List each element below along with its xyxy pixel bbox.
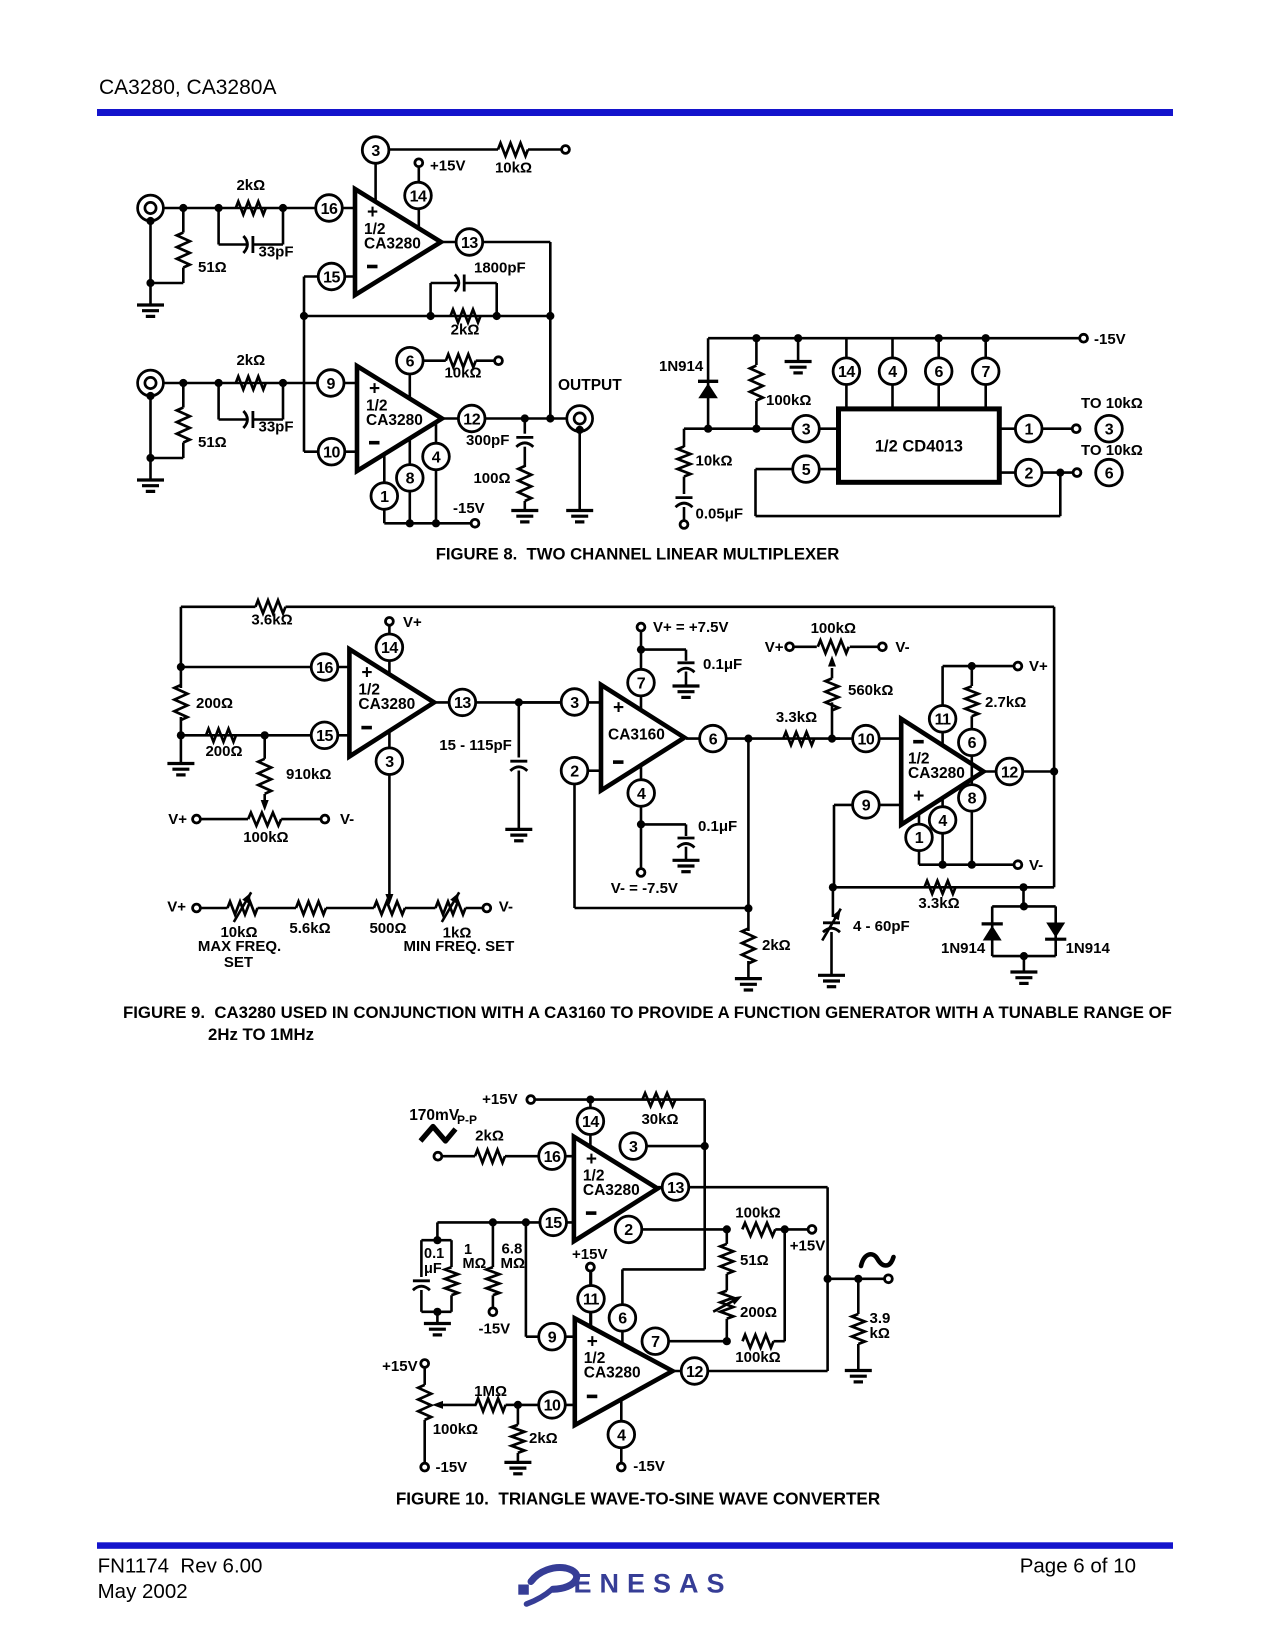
- V+ 7.5 terminal: [637, 619, 729, 710]
- caption figure 10: [396, 1490, 880, 1509]
- svg-text:100kΩ: 100kΩ: [811, 620, 856, 637]
- svg-text:V+: V+: [167, 899, 186, 916]
- svg-text:100Ω: 100Ω: [473, 470, 510, 487]
- svg-text:33pF: 33pF: [259, 419, 294, 436]
- svg-text:+: +: [367, 202, 378, 223]
- resistor R9 100k: [750, 338, 812, 429]
- header title text: [99, 76, 276, 99]
- diode D3 1N914: [1045, 923, 1110, 958]
- svg-text:0.05μF: 0.05μF: [696, 506, 744, 523]
- input jack J2: [138, 370, 164, 400]
- svg-text:4 - 60pF: 4 - 60pF: [853, 918, 910, 935]
- pin 10 of U6: [853, 725, 880, 752]
- input jack J1: [138, 195, 164, 225]
- node dot A2: [215, 204, 223, 212]
- triangle wave symbol: [421, 1127, 456, 1142]
- capacitor C3 33pF: [219, 383, 294, 436]
- output node fig10: [824, 1275, 893, 1283]
- pin 3 wire of CD4013: [684, 425, 839, 433]
- wire to pin 16 fig9: [177, 663, 350, 671]
- svg-text:1N914: 1N914: [941, 940, 986, 957]
- pin 2 of CA3160 wire: [575, 771, 750, 908]
- resistor R12 200ohm: [174, 667, 233, 739]
- pot R29 100k fig10: [382, 1358, 478, 1476]
- svg-text:SET: SET: [224, 954, 253, 971]
- resistor R32 51ohm: [720, 1225, 768, 1290]
- ground G10: [735, 979, 762, 990]
- node dot after 13: [515, 698, 523, 706]
- svg-text:kΩ: kΩ: [870, 1325, 890, 1342]
- wire inverting bus down: [304, 316, 357, 452]
- label TO 10k lower: [1081, 442, 1143, 459]
- svg-text:200Ω: 200Ω: [196, 695, 233, 712]
- svg-text:4: 4: [637, 786, 646, 803]
- resistor R14 910k: [258, 735, 331, 811]
- svg-text:33pF: 33pF: [259, 244, 294, 261]
- svg-text:200Ω: 200Ω: [205, 743, 242, 760]
- capacitor C7 0.1uF top: [641, 650, 742, 686]
- pin 10 of U8: [539, 1392, 566, 1419]
- pin 3 of CA3160: [561, 689, 588, 716]
- pin 7 of U8: [642, 1328, 669, 1355]
- op-amp U6 1/2 CA3280 fig9: [901, 719, 983, 825]
- pin 15 wire fig10: [433, 1218, 574, 1244]
- svg-text:0.1μF: 0.1μF: [703, 656, 742, 673]
- svg-text:FIGURE 9. CA3280 USED IN CONJ: FIGURE 9. CA3280 USED IN CONJUNCTION WIT…: [123, 1003, 1172, 1022]
- svg-text:4: 4: [938, 813, 947, 830]
- svg-text:V-: V-: [499, 899, 513, 916]
- footer date: [98, 1580, 188, 1603]
- resistor R25 3.3k feedback: [918, 881, 959, 912]
- node dot B2: [215, 379, 223, 387]
- svg-text:3.3kΩ: 3.3kΩ: [918, 895, 959, 912]
- resistor R30 1M fig10: [474, 1383, 518, 1411]
- svg-text:3: 3: [371, 143, 380, 160]
- pin 7 of CD4013: [972, 338, 999, 409]
- capacitor C4 300pF: [466, 419, 533, 468]
- node dot rail gnd: [794, 334, 802, 342]
- svg-text:16: 16: [544, 1149, 561, 1166]
- svg-text:FN1174 Rev 6.00: FN1174 Rev 6.00: [98, 1555, 263, 1578]
- +15V terminal right fig10: [790, 1226, 825, 1255]
- svg-text:8: 8: [406, 471, 415, 488]
- svg-text:6: 6: [968, 735, 977, 752]
- caption figure 8: [436, 545, 840, 564]
- renesas logo: [518, 1568, 732, 1604]
- svg-text:FIGURE 10. TRIANGLE WAVE-TO-S: FIGURE 10. TRIANGLE WAVE-TO-SINE WAVE CO…: [396, 1490, 880, 1509]
- resistor R20 2k fig9: [742, 739, 791, 979]
- wire pin15 to feedback node: [304, 277, 355, 317]
- svg-text:1N914: 1N914: [1066, 940, 1111, 957]
- capacitor C5 0.05uF: [676, 498, 744, 523]
- svg-text:4: 4: [432, 449, 441, 466]
- pin 15 of U7: [540, 1209, 567, 1236]
- pin 1 of U6 wire: [918, 813, 921, 865]
- resistor R17 5.6k: [289, 902, 330, 938]
- svg-text:V-: V-: [895, 639, 909, 656]
- svg-text:3: 3: [385, 754, 394, 771]
- wire J2 to pin 9: [163, 382, 357, 385]
- svg-text:12: 12: [686, 1364, 703, 1381]
- resistor R11 3.6k: [251, 600, 292, 628]
- resistor R31 2k fig10: [511, 1405, 557, 1463]
- resistor R26 30k: [641, 1093, 678, 1128]
- svg-text:13: 13: [667, 1180, 684, 1197]
- pin 9 fig10: [539, 1323, 566, 1350]
- resistor R7 10k: [444, 354, 494, 381]
- svg-text:May 2002: May 2002: [98, 1580, 188, 1603]
- svg-text:10kΩ: 10kΩ: [495, 160, 532, 177]
- svg-text:2kΩ: 2kΩ: [475, 1128, 504, 1145]
- resistor R28 6.8M: [486, 1222, 525, 1315]
- resistor R21 3.3k: [776, 709, 836, 745]
- op-amp U1 1/2 CA3280: [355, 189, 441, 295]
- svg-text:6: 6: [1105, 465, 1114, 482]
- diode pair wires: [992, 887, 1055, 972]
- ground G4: [511, 511, 538, 522]
- capacitor C6 15-115pF: [439, 702, 527, 829]
- diode D1 1N914: [659, 338, 708, 429]
- resistor R5 2k: [236, 352, 266, 390]
- svg-text:2.7kΩ: 2.7kΩ: [985, 694, 1026, 711]
- resistor R10 10k: [678, 429, 733, 494]
- terminal of R7: [495, 357, 503, 365]
- pot R19 1k MIN FREQ SET: [403, 892, 514, 955]
- svg-text:16: 16: [321, 201, 338, 218]
- op-amp U5 CA3160: [601, 685, 684, 791]
- svg-text:6: 6: [406, 354, 415, 371]
- ground G14: [504, 1462, 531, 1473]
- ref circle 3: [1096, 415, 1123, 442]
- resistor R22 560k: [826, 656, 894, 739]
- pin 5 wire of CD4013: [756, 469, 1061, 516]
- svg-text:170mV: 170mV: [409, 1107, 460, 1124]
- resistor R6 51ohm: [146, 383, 226, 462]
- svg-text:μF: μF: [424, 1261, 442, 1277]
- svg-text:14: 14: [381, 640, 398, 657]
- node dot output: [521, 414, 529, 422]
- svg-text:2: 2: [570, 764, 579, 781]
- pin 12 of U2: [443, 405, 567, 432]
- svg-text:2kΩ: 2kΩ: [529, 1430, 558, 1447]
- pot R16 10k MAX FREQ SET: [198, 892, 281, 971]
- svg-text:1: 1: [1024, 422, 1033, 439]
- svg-text:FIGURE 8. TWO CHANNEL LINEAR: FIGURE 8. TWO CHANNEL LINEAR MULTIPLEXER: [436, 545, 840, 564]
- top rail wire fig9: [181, 607, 1054, 888]
- svg-text:1/2 CD4013: 1/2 CD4013: [875, 438, 963, 456]
- svg-text:0.1μF: 0.1μF: [698, 818, 737, 835]
- svg-text:MIN FREQ. SET: MIN FREQ. SET: [403, 938, 514, 955]
- svg-text:200Ω: 200Ω: [740, 1304, 777, 1321]
- pot R33 200ohm: [713, 1291, 777, 1346]
- svg-text:300pF: 300pF: [466, 432, 509, 449]
- svg-text:3.3kΩ: 3.3kΩ: [776, 709, 817, 726]
- svg-text:3.6kΩ: 3.6kΩ: [251, 612, 292, 629]
- svg-text:51Ω: 51Ω: [198, 434, 227, 451]
- pin 2 wire: [999, 469, 1073, 477]
- pin 13 of U1: [442, 229, 550, 256]
- svg-text:+15V: +15V: [790, 1238, 825, 1255]
- svg-text:OUTPUT: OUTPUT: [558, 377, 622, 394]
- svg-text:1N914: 1N914: [659, 358, 704, 375]
- ground G6: [167, 735, 194, 775]
- svg-text:+15V: +15V: [482, 1091, 517, 1108]
- pin 4 of U8: [608, 1421, 635, 1448]
- pin 11 of U6: [929, 706, 956, 733]
- resistor R1 2k: [236, 177, 266, 215]
- pot R23 100k fig9: [765, 620, 910, 656]
- pin 10 wire fig10: [514, 1401, 575, 1409]
- header blue rule: [97, 109, 1173, 116]
- svg-text:15: 15: [323, 269, 340, 286]
- ground G8: [673, 686, 700, 697]
- pin 8 of U6: [959, 785, 986, 812]
- pin 14 of CD4013: [833, 338, 860, 409]
- ground G7: [505, 829, 532, 840]
- resistor R24 2.7k: [965, 666, 1026, 865]
- svg-text:TO 10kΩ: TO 10kΩ: [1081, 442, 1143, 459]
- terminal V- 7.5: [611, 869, 678, 897]
- pin 9: [317, 370, 344, 397]
- svg-text:7: 7: [651, 1334, 660, 1351]
- op-amp U4 1/2 CA3280: [349, 649, 434, 756]
- pin 7 of CA3160: [628, 669, 655, 696]
- svg-text:12: 12: [463, 411, 480, 428]
- pin 13 of U7 wire: [658, 1187, 828, 1279]
- resistor R2 51ohm: [146, 208, 226, 287]
- pin 4 of U8 wire: [617, 1399, 664, 1475]
- svg-text:100kΩ: 100kΩ: [433, 1421, 478, 1438]
- svg-text:12: 12: [1001, 764, 1018, 781]
- svg-text:CA3280, CA3280A: CA3280, CA3280A: [99, 76, 276, 99]
- pin 14 of U7: [577, 1100, 604, 1147]
- svg-text:2: 2: [624, 1222, 633, 1239]
- pin 13 of U7: [662, 1174, 689, 1201]
- svg-text:V- = -7.5V: V- = -7.5V: [611, 880, 678, 897]
- wiper arrow 100k pot: [432, 1401, 477, 1409]
- svg-text:MAX FREQ.: MAX FREQ.: [198, 938, 281, 955]
- pin 15: [318, 263, 345, 290]
- pin 3 of U7: [620, 1133, 647, 1160]
- pin 6 of CD4013: [925, 338, 952, 409]
- pin 4 of U6 wire: [941, 797, 944, 865]
- svg-text:14: 14: [410, 188, 427, 205]
- svg-text:2kΩ: 2kΩ: [762, 937, 791, 954]
- svg-text:TO 10kΩ: TO 10kΩ: [1081, 395, 1143, 412]
- V- rail U6: [919, 857, 1043, 874]
- svg-text:100kΩ: 100kΩ: [766, 392, 811, 409]
- diode D1 body: [698, 381, 718, 398]
- resistor R27 2k fig10: [475, 1128, 574, 1163]
- wire to pin 15 fig9: [181, 734, 350, 737]
- pin 1 of U2: [371, 454, 398, 523]
- pin 9 of U6: [853, 792, 880, 819]
- svg-text:100kΩ: 100kΩ: [243, 829, 288, 846]
- label 1M: [463, 1242, 487, 1272]
- svg-text:-15V: -15V: [479, 1321, 511, 1338]
- svg-text:15 - 115pF: 15 - 115pF: [439, 737, 512, 754]
- resistor R3 10k: [495, 143, 562, 177]
- node dot rail 6: [935, 334, 943, 342]
- svg-text:4: 4: [617, 1427, 626, 1444]
- ground G1: [137, 305, 164, 316]
- svg-text:9: 9: [326, 376, 335, 393]
- wire J2 to ground: [149, 396, 152, 480]
- op-amp U7 1/2 CA3280 fig10 top: [574, 1137, 658, 1242]
- svg-text:+15V: +15V: [430, 158, 465, 175]
- svg-text:6: 6: [709, 731, 718, 748]
- sine wave symbol: [861, 1254, 894, 1266]
- svg-text:30kΩ: 30kΩ: [641, 1111, 678, 1128]
- svg-text:-15V: -15V: [633, 1458, 665, 1475]
- svg-text:V-: V-: [1029, 857, 1043, 874]
- svg-text:500Ω: 500Ω: [369, 920, 406, 937]
- pin 12 of U8 wire: [673, 1279, 828, 1371]
- IC U3 1/2 CD4013: [839, 409, 1000, 482]
- wire output U1 down: [546, 242, 554, 423]
- pin 14 of U1: [405, 182, 432, 209]
- node dot A1: [179, 204, 187, 212]
- wire pin13 to pin3 CA3160: [519, 701, 601, 704]
- node dot B1: [179, 379, 187, 387]
- pin 4 of CA3160 wire: [637, 765, 645, 869]
- label 0.1uF box: [424, 1246, 444, 1277]
- svg-text:51Ω: 51Ω: [198, 259, 227, 276]
- svg-text:CA3280: CA3280: [584, 1365, 641, 1382]
- svg-text:Page 6 of 10: Page 6 of 10: [1020, 1554, 1136, 1577]
- svg-text:7: 7: [981, 364, 990, 381]
- resistor R8 100ohm: [473, 466, 531, 511]
- svg-text:-15V: -15V: [453, 500, 485, 517]
- svg-text:MΩ: MΩ: [501, 1255, 526, 1272]
- svg-text:V+: V+: [168, 811, 187, 828]
- svg-text:CA3280: CA3280: [358, 696, 415, 713]
- svg-text:6: 6: [618, 1311, 627, 1328]
- svg-text:7: 7: [637, 675, 646, 692]
- terminal pin2: [1073, 469, 1081, 477]
- capacitor C1 33pF: [219, 208, 294, 261]
- svg-text:2kΩ: 2kΩ: [236, 352, 265, 369]
- pin 7 of U8 wire: [668, 1340, 727, 1343]
- svg-text:11: 11: [583, 1292, 600, 1309]
- ground G3: [566, 511, 593, 522]
- ground G2: [137, 480, 164, 491]
- svg-text:2Hz TO 1MHz: 2Hz TO 1MHz: [208, 1025, 314, 1044]
- svg-text:V+: V+: [1029, 658, 1048, 675]
- terminal of R3: [562, 146, 570, 154]
- svg-text:V+: V+: [765, 639, 784, 656]
- +15V terminal fig10: [482, 1091, 705, 1108]
- resistor R35 100k lower: [735, 1229, 784, 1366]
- -15V rail of U2: [384, 500, 484, 527]
- pin 3 of U1: [362, 137, 389, 202]
- svg-text:2kΩ: 2kΩ: [236, 177, 265, 194]
- resistor R18 500ohm: [369, 902, 406, 938]
- svg-text:3: 3: [802, 422, 811, 439]
- caption figure 9 line 1: [123, 1003, 1172, 1022]
- V+ terminal U4: [386, 614, 423, 674]
- ground G5: [785, 338, 812, 373]
- svg-text:10kΩ: 10kΩ: [696, 453, 733, 470]
- svg-text:+15V: +15V: [382, 1358, 417, 1375]
- svg-text:4: 4: [888, 364, 897, 381]
- svg-text:+: +: [913, 786, 924, 807]
- pin 13 of U4: [435, 689, 571, 716]
- pot R15 100k: [168, 811, 354, 846]
- pin 11 of U8: [578, 1286, 605, 1313]
- svg-text:910kΩ: 910kΩ: [286, 766, 331, 783]
- svg-text:0.1: 0.1: [424, 1246, 444, 1262]
- svg-text:1: 1: [380, 489, 389, 506]
- pin 1 of U6: [906, 824, 933, 851]
- pin 16 fig10: [539, 1143, 566, 1170]
- varcap C9 4-60pF: [822, 887, 909, 975]
- feedback wire U1: [300, 312, 550, 320]
- node dot A3: [279, 204, 287, 212]
- pin 5 of CD4013: [793, 456, 820, 483]
- pin 11 of U8 wire: [587, 1263, 595, 1327]
- terminal below C5: [680, 521, 688, 529]
- pin 12 of U8: [681, 1358, 708, 1385]
- resistor R34 100k upper: [735, 1205, 808, 1236]
- OUTPUT jack J3: [558, 377, 622, 511]
- svg-text:1MΩ: 1MΩ: [474, 1383, 507, 1400]
- pin 3 of U4: [376, 748, 403, 775]
- svg-text:CA3280: CA3280: [366, 412, 423, 429]
- svg-text:2: 2: [1024, 465, 1033, 482]
- pin 1 of CD4013: [1015, 415, 1042, 442]
- pin 2 of CA3160: [561, 757, 588, 784]
- freq set rail: [167, 899, 513, 916]
- label TO 10k upper: [1081, 395, 1143, 412]
- pin 16 fig9: [311, 654, 338, 681]
- label -15V fig10 a: [479, 1321, 511, 1338]
- RC network 0.1uF 1M: [413, 1240, 458, 1323]
- svg-text:5.6kΩ: 5.6kΩ: [289, 920, 330, 937]
- svg-text:51Ω: 51Ω: [740, 1252, 769, 1269]
- footer doc number: [98, 1555, 263, 1578]
- svg-text:6: 6: [934, 364, 943, 381]
- svg-text:+15V: +15V: [572, 1246, 607, 1263]
- svg-text:100kΩ: 100kΩ: [735, 1349, 780, 1366]
- pin 6 of U2: [397, 347, 446, 398]
- svg-text:3: 3: [629, 1139, 638, 1156]
- pin 14 of U4: [376, 634, 403, 661]
- svg-text:560kΩ: 560kΩ: [848, 682, 893, 699]
- svg-text:10: 10: [323, 445, 340, 462]
- label 170mV: [409, 1107, 477, 1127]
- footer page number: [1020, 1554, 1136, 1577]
- diode D2 1N914: [941, 924, 1003, 957]
- svg-text:15: 15: [316, 728, 333, 745]
- pin 15 fig9: [311, 722, 338, 749]
- pin 2 of U7: [615, 1216, 642, 1243]
- pin 1 wire: [999, 427, 1072, 430]
- pin 6 of CA3160 wire: [686, 735, 840, 743]
- node dot rail 100k: [752, 334, 760, 342]
- ground G12: [1010, 972, 1037, 983]
- svg-text:14: 14: [838, 364, 855, 381]
- pin 12 of U6: [996, 758, 1023, 785]
- label +15V under U7: [572, 1246, 607, 1327]
- -15V rail CD4013: [708, 331, 1126, 348]
- svg-text:8: 8: [968, 791, 977, 808]
- svg-text:CA3280: CA3280: [583, 1182, 640, 1199]
- pin 3 of U7 wire: [646, 1145, 705, 1148]
- wire 30k down to pin3 node: [622, 1100, 708, 1307]
- svg-text:10: 10: [544, 1398, 561, 1415]
- svg-text:+: +: [613, 698, 624, 719]
